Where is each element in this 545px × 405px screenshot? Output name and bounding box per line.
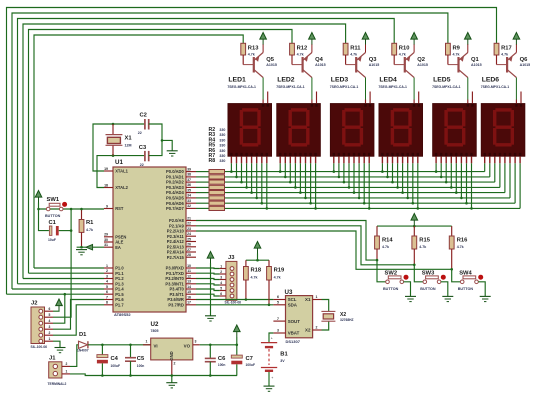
svg-text:P1.6: P1.6	[115, 297, 124, 302]
resistor R8 330 (series segment 6)	[209, 201, 225, 205]
svg-text:R16: R16	[457, 238, 468, 244]
svg-text:31: 31	[104, 243, 108, 247]
svg-text:34: 34	[187, 194, 191, 198]
wire net P1.0 to R13	[34, 35, 243, 268]
node R15 bottom junction	[413, 264, 416, 267]
svg-text:2: 2	[106, 269, 108, 273]
svg-text:100n: 100n	[137, 364, 145, 368]
svg-text:18: 18	[104, 183, 108, 187]
ground crystal circuit	[167, 151, 178, 156]
svg-text:36: 36	[187, 183, 191, 187]
svg-text:B1: B1	[280, 351, 288, 357]
node +5V rail C6	[209, 344, 212, 347]
svg-text:19: 19	[104, 167, 108, 171]
crystal X2 32768Hz	[321, 311, 353, 322]
ground EA/R1	[76, 250, 87, 255]
svg-text:+: +	[271, 337, 273, 341]
wires LED6 segment pins to bus	[485, 156, 520, 208]
resistor R16 4.7k	[449, 226, 468, 269]
svg-text:1N4007: 1N4007	[77, 348, 89, 352]
power VCC arrow at SW1	[35, 191, 42, 203]
wires LED1 segment pins to bus	[230, 156, 268, 209]
svg-text:1: 1	[220, 265, 222, 269]
svg-text:P1.2: P1.2	[115, 276, 124, 281]
svg-text:P3.0/RXD: P3.0/RXD	[166, 266, 184, 271]
power VCC arrow at R15 rail	[411, 214, 418, 226]
svg-text:13: 13	[187, 280, 191, 284]
wire J1 pin1 to ground rail	[70, 374, 102, 376]
svg-text:P1.0: P1.0	[115, 266, 124, 271]
svg-text:P0.5/AD5: P0.5/AD5	[166, 196, 184, 201]
transistor Q6 A1015 PNP	[497, 44, 531, 78]
svg-text:23: 23	[187, 227, 191, 231]
svg-text:7: 7	[106, 295, 108, 299]
svg-text:LED4: LED4	[379, 76, 397, 83]
svg-text:C7: C7	[246, 356, 253, 362]
svg-text:35: 35	[187, 188, 191, 192]
svg-text:P0.4/AD4: P0.4/AD4	[166, 190, 184, 195]
wire Q3 collector to LED3 pin	[365, 78, 367, 100]
svg-text:BUTTON: BUTTON	[45, 214, 61, 218]
svg-text:RST: RST	[115, 206, 124, 211]
wire bus segment P0.0 row	[196, 171, 485, 173]
node X1 top junction	[112, 123, 115, 126]
svg-text:SDA: SDA	[288, 302, 298, 307]
svg-text:24: 24	[187, 232, 191, 236]
node R19 to SDA	[268, 304, 271, 307]
svg-text:A1015: A1015	[520, 63, 531, 67]
node R18/R19 rail junction	[256, 259, 259, 262]
svg-text:25: 25	[187, 237, 191, 241]
svg-text:R13: R13	[248, 45, 259, 51]
svg-text:C2: C2	[140, 113, 147, 119]
svg-text:12M: 12M	[125, 144, 132, 148]
resistor R2 330 (series segment 0)	[209, 170, 225, 174]
crystal X1 12M	[106, 124, 133, 156]
svg-text:XTAL2: XTAL2	[115, 185, 128, 190]
svg-text:Q4: Q4	[315, 57, 324, 63]
svg-text:7SEG-MPX1-CA-1: 7SEG-MPX1-CA-1	[481, 85, 510, 89]
svg-text:6: 6	[220, 292, 222, 296]
svg-text:R10: R10	[399, 45, 410, 51]
wires LED2 segment pins to bus	[279, 156, 317, 209]
svg-text:C3: C3	[139, 145, 147, 151]
svg-text:3: 3	[49, 325, 51, 329]
transistor Q1 A1015 PNP	[448, 44, 482, 78]
svg-text:2: 2	[174, 362, 176, 366]
7-segment display LED6 7SEG-MPX1-CA-1	[481, 76, 525, 156]
wire R18/R19 top rail	[246, 254, 269, 261]
resistor R18 4.7k	[244, 260, 262, 299]
svg-text:4.7k: 4.7k	[248, 52, 255, 56]
svg-text:9: 9	[106, 204, 108, 208]
resistor R9 330 (series segment 7)	[209, 206, 225, 210]
node ground rail C6	[209, 374, 212, 377]
svg-text:A1015: A1015	[471, 63, 482, 67]
svg-text:J1: J1	[49, 356, 56, 362]
wire ground rail	[102, 375, 237, 377]
wire +V rail D1 to U2 VI	[88, 344, 151, 346]
7-segment display LED4 7SEG-MPX1-CA-1	[378, 76, 422, 156]
wire Q4 collector to LED2 pin	[311, 78, 313, 100]
svg-text:28: 28	[187, 253, 191, 257]
wire SCL net P3.6 to U3	[196, 299, 273, 301]
ground U2	[166, 383, 177, 388]
wire net P1.1 to R12	[29, 30, 293, 274]
transistor Q3 A1015 PNP	[346, 44, 380, 78]
wire net P1.5 to R17	[7, 8, 497, 295]
node ground rail C5	[129, 374, 132, 377]
wire SW3 to ground	[441, 282, 448, 297]
node ground rail U2	[171, 374, 174, 377]
wire net P1.3 to R10	[18, 19, 395, 284]
svg-text:R11: R11	[350, 45, 361, 51]
svg-text:1: 1	[146, 340, 148, 344]
wire P3.5 to J3 pin6	[196, 294, 220, 296]
wire SW4 feed	[452, 269, 461, 282]
resistor R5 330 (series segment 3)	[209, 185, 225, 189]
wire bus segment P0.2 row	[196, 181, 495, 183]
svg-text:SIL-100-06: SIL-100-06	[31, 345, 48, 349]
ground J2	[55, 348, 66, 353]
svg-text:P2.1/A9: P2.1/A9	[169, 223, 185, 228]
wire SW3 feed	[414, 265, 423, 282]
7-segment display LED2 7SEG-MPX1-CA-1	[276, 76, 320, 156]
svg-text:R15: R15	[419, 238, 430, 244]
svg-text:P1.7: P1.7	[115, 302, 124, 307]
svg-text:330: 330	[219, 149, 225, 153]
svg-text:22: 22	[140, 163, 144, 167]
svg-text:7SEG-MPX1-CA-1: 7SEG-MPX1-CA-1	[276, 85, 305, 89]
connector J3 SIL-100-06	[220, 255, 242, 304]
svg-text:R8: R8	[209, 158, 216, 164]
power VCC arrow at Q6 emitter	[513, 33, 520, 45]
resistor R4 330 (series segment 2)	[209, 180, 225, 184]
svg-text:4.7k: 4.7k	[350, 52, 357, 56]
svg-text:C6: C6	[218, 356, 226, 362]
svg-text:4.7k: 4.7k	[86, 228, 93, 232]
svg-text:26: 26	[187, 243, 191, 247]
svg-text:37: 37	[187, 178, 191, 182]
wire P1.6 to J2 pin3	[53, 300, 104, 330]
wire Q1 collector to LED5 pin	[467, 78, 469, 100]
svg-text:P0.2/AD2: P0.2/AD2	[166, 180, 184, 185]
wire P3.2 to J3 pin3	[196, 279, 220, 280]
svg-text:33: 33	[187, 199, 191, 203]
svg-text:BUTTON: BUTTON	[458, 287, 474, 291]
wire P3.0 to J3 pin1	[196, 267, 220, 270]
svg-text:SOUT: SOUT	[288, 319, 301, 324]
svg-text:4.7k: 4.7k	[399, 52, 406, 56]
wire bus segment P0.5 row	[196, 197, 510, 199]
wire SW2 to ground	[404, 282, 411, 297]
node rail-arrow junction	[413, 225, 416, 228]
7-segment display LED1 7SEG-MPX1-CA-1	[227, 76, 271, 156]
svg-text:R1: R1	[86, 220, 94, 226]
svg-text:7SEG-MPX1-CA-1: 7SEG-MPX1-CA-1	[227, 85, 256, 89]
svg-text:7SEG-MPX1-CA-1: 7SEG-MPX1-CA-1	[330, 85, 359, 89]
svg-text:C1: C1	[49, 220, 57, 226]
wire P1.5 to J2 pin4	[53, 294, 65, 323]
svg-text:P3.6/WR: P3.6/WR	[167, 297, 183, 302]
connector J1 TERMINAL2	[48, 356, 71, 386]
switch SW3 BUTTON	[420, 271, 446, 291]
svg-text:1: 1	[66, 369, 68, 373]
svg-text:10uF: 10uF	[48, 238, 56, 242]
power VCC arrow at J2	[56, 299, 63, 311]
svg-text:A1015: A1015	[266, 63, 277, 67]
wire Q5 collector to LED1 pin	[262, 78, 264, 100]
node X1 bottom junction	[112, 154, 115, 157]
connector J2 SIL-100-06	[31, 301, 54, 350]
svg-text:R12: R12	[297, 45, 308, 51]
svg-text:29: 29	[104, 233, 108, 237]
svg-text:P2.3/A11: P2.3/A11	[167, 234, 185, 239]
svg-text:330: 330	[219, 159, 225, 163]
svg-text:U2: U2	[151, 321, 159, 328]
switch SW1 BUTTON	[45, 197, 67, 218]
svg-text:LED1: LED1	[228, 76, 246, 83]
svg-text:11: 11	[187, 269, 191, 273]
svg-text:TERMINAL2: TERMINAL2	[48, 382, 67, 386]
svg-text:1: 1	[106, 264, 108, 268]
node VCC/SW1 junction	[37, 208, 40, 211]
capacitor C7 100uF	[231, 345, 255, 376]
node R1 top junction	[80, 208, 83, 211]
wire P2.1 to SW3 column	[196, 226, 414, 265]
transistor Q4 A1015 PNP	[292, 44, 326, 78]
svg-text:VI: VI	[154, 344, 158, 349]
svg-text:100uF: 100uF	[111, 364, 121, 368]
capacitor C2 22	[138, 113, 149, 135]
svg-text:J2: J2	[31, 301, 37, 307]
svg-text:100n: 100n	[218, 363, 226, 367]
svg-text:7SEG-MPX1-CA-1: 7SEG-MPX1-CA-1	[432, 85, 461, 89]
wire P1.7 to J2 pin2	[53, 305, 104, 335]
resistor R1 4.7k	[79, 209, 94, 247]
svg-text:LED2: LED2	[277, 76, 295, 83]
svg-text:P2.6/A14: P2.6/A14	[167, 250, 185, 255]
svg-text:3: 3	[195, 340, 197, 344]
svg-text:4.7k: 4.7k	[457, 245, 464, 249]
svg-text:AT89S52: AT89S52	[114, 312, 131, 317]
svg-text:Q6: Q6	[520, 57, 529, 63]
power VCC arrow at Q5 emitter	[260, 33, 267, 45]
regulator U2 7805	[143, 321, 200, 376]
svg-text:100uF: 100uF	[246, 363, 256, 367]
svg-text:7SEG-MPX1-CA-1: 7SEG-MPX1-CA-1	[378, 85, 407, 89]
svg-text:BUTTON: BUTTON	[383, 287, 399, 291]
svg-text:R9: R9	[453, 45, 461, 51]
svg-text:8: 8	[106, 301, 108, 305]
svg-text:A1015: A1015	[417, 63, 428, 67]
capacitor C1 10uF	[48, 220, 59, 242]
svg-text:4.7k: 4.7k	[501, 52, 508, 56]
wire C1 right to RST and J2	[53, 209, 71, 317]
power VCC arrow at Q1 emitter	[465, 33, 472, 45]
svg-text:BUTTON: BUTTON	[420, 287, 436, 291]
resistor R17 4.7k	[494, 43, 512, 64]
wire XTAL2 net	[97, 156, 144, 188]
switch SW4 BUTTON	[458, 271, 484, 291]
svg-text:27: 27	[187, 248, 191, 252]
svg-text:SW2: SW2	[385, 271, 398, 277]
svg-text:4.7k: 4.7k	[382, 245, 389, 249]
svg-text:330: 330	[219, 138, 225, 142]
svg-text:GND: GND	[169, 351, 174, 360]
resistor R19 4.7k	[267, 260, 285, 305]
svg-text:Q5: Q5	[266, 57, 275, 63]
svg-text:3: 3	[106, 274, 108, 278]
svg-text:32768HZ: 32768HZ	[340, 318, 354, 322]
svg-text:4.7k: 4.7k	[419, 245, 426, 249]
op-amp U1 AT89S52 microcontroller	[104, 159, 196, 317]
svg-text:4.7k: 4.7k	[274, 275, 281, 279]
svg-text:39: 39	[187, 167, 191, 171]
ground SW4	[480, 296, 491, 301]
svg-text:30: 30	[104, 238, 108, 242]
svg-text:2: 2	[49, 331, 51, 335]
svg-text:SW4: SW4	[459, 271, 472, 277]
svg-text:4: 4	[106, 280, 108, 284]
svg-text:Q1: Q1	[471, 57, 480, 63]
resistor R9 4.7k	[446, 43, 461, 64]
svg-text:14: 14	[187, 285, 191, 289]
wire net P1.2 to R11	[23, 24, 346, 279]
wire XTAL1 net	[93, 124, 144, 171]
wire P2.2 to SW4 column	[196, 231, 452, 269]
wire P2.0 to SW2 column	[196, 221, 377, 261]
wire Q2 collector to LED4 pin	[413, 78, 415, 100]
wire RST row	[39, 203, 105, 210]
resistor R3 330 (series segment 1)	[209, 175, 225, 179]
svg-text:5: 5	[220, 287, 222, 291]
wire J2 pin1 to ground	[53, 341, 60, 347]
resistor R10 4.7k	[392, 43, 410, 64]
svg-text:X1: X1	[305, 297, 311, 302]
svg-text:U3: U3	[285, 289, 293, 296]
svg-text:330: 330	[219, 154, 225, 158]
node +5V rail C7	[236, 344, 239, 347]
capacitor C3 22	[139, 145, 149, 167]
resistor R11 4.7k	[343, 43, 361, 64]
svg-text:22: 22	[138, 131, 142, 135]
svg-text:2: 2	[66, 362, 68, 366]
svg-text:330: 330	[219, 128, 225, 132]
svg-text:6: 6	[277, 295, 279, 299]
svg-text:VBAT: VBAT	[288, 331, 300, 336]
svg-text:SW3: SW3	[422, 271, 435, 277]
svg-text:21: 21	[187, 216, 191, 220]
svg-text:VO: VO	[184, 344, 191, 349]
power EA arrow	[86, 244, 93, 250]
svg-text:17: 17	[187, 301, 191, 305]
wire bus segment P0.3 row	[196, 186, 500, 188]
wire SW4 to ground	[478, 282, 485, 297]
svg-text:EA: EA	[115, 245, 121, 250]
wire arrow stem to rail	[236, 337, 238, 345]
svg-text:330: 330	[219, 133, 225, 137]
resistor R15 4.7k	[412, 226, 431, 265]
svg-text:16: 16	[187, 295, 191, 299]
svg-text:12: 12	[187, 274, 191, 278]
svg-text:15: 15	[187, 290, 191, 294]
wire J1 pin2 to D1 anode	[70, 345, 79, 367]
node R14 bottom junction	[376, 259, 379, 262]
transistor Q5 A1015 PNP	[243, 44, 277, 78]
svg-text:J3: J3	[228, 255, 235, 261]
wire P3.3 to J3 pin4	[196, 284, 220, 285]
svg-text:7805: 7805	[151, 329, 159, 333]
svg-text:Q2: Q2	[417, 57, 425, 63]
svg-text:P3.7/RD: P3.7/RD	[168, 302, 184, 307]
svg-text:7: 7	[277, 317, 279, 321]
svg-text:P1.4: P1.4	[115, 287, 124, 292]
svg-text:U1: U1	[115, 159, 123, 166]
svg-text:+: +	[271, 376, 273, 380]
resistor R6 330 (series segment 4)	[209, 191, 225, 195]
svg-text:6: 6	[49, 307, 51, 311]
svg-text:5: 5	[277, 300, 279, 304]
svg-text:X2: X2	[305, 328, 311, 333]
resistor R7 330 (series segment 5)	[209, 196, 225, 200]
svg-text:SW1: SW1	[47, 197, 60, 203]
svg-text:38: 38	[187, 173, 191, 177]
power VCC arrow at Q2 emitter	[411, 33, 418, 45]
svg-text:3: 3	[277, 329, 279, 333]
svg-text:XTAL1: XTAL1	[115, 169, 128, 174]
svg-text:R19: R19	[274, 268, 285, 274]
svg-text:P0.7/AD7: P0.7/AD7	[166, 206, 184, 211]
wire P3.4 to J3 pin5	[196, 289, 220, 291]
svg-text:Q3: Q3	[369, 57, 378, 63]
ground below J3	[205, 316, 216, 321]
svg-text:4.7k: 4.7k	[297, 52, 304, 56]
svg-text:3: 3	[220, 276, 222, 280]
label resistor network R2-R8 330 values	[209, 127, 226, 164]
svg-text:P3.2/INT0: P3.2/INT0	[165, 276, 184, 281]
wires LED3 segment pins to bus	[333, 156, 371, 209]
node C2-C3 junction	[161, 139, 164, 142]
svg-text:32: 32	[187, 204, 191, 208]
power +5V arrow at C7	[234, 325, 241, 337]
svg-text:3V: 3V	[280, 359, 285, 363]
svg-text:LED5: LED5	[433, 76, 451, 83]
svg-text:1: 1	[49, 337, 51, 341]
op-amp U3 DS1307 RTC	[273, 289, 321, 344]
power VCC arrow at Q4 emitter	[309, 33, 316, 45]
battery B1 3V	[261, 337, 289, 387]
node R18 to SCL	[245, 298, 248, 301]
node R1 bottom junction	[80, 246, 83, 249]
wires LED5 segment pins to bus	[435, 156, 473, 209]
svg-text:6: 6	[106, 290, 108, 294]
wires LED4 segment pins to bus	[381, 156, 419, 209]
svg-text:DS1307: DS1307	[286, 339, 301, 344]
svg-text:4.7k: 4.7k	[453, 52, 460, 56]
ground SW2	[405, 296, 416, 301]
svg-text:D1: D1	[79, 332, 87, 338]
svg-text:2: 2	[220, 270, 222, 274]
svg-text:P0.0/AD0: P0.0/AD0	[166, 169, 184, 174]
wire bus segment P0.1 row	[196, 176, 490, 178]
svg-text:4: 4	[220, 281, 222, 285]
svg-text:P2.7/A15: P2.7/A15	[167, 255, 185, 260]
wire R14-R16 top rail	[377, 225, 452, 227]
switch SW2 BUTTON	[383, 271, 409, 291]
svg-text:R14: R14	[382, 238, 393, 244]
wire VCC to J2 pin6	[53, 310, 59, 312]
